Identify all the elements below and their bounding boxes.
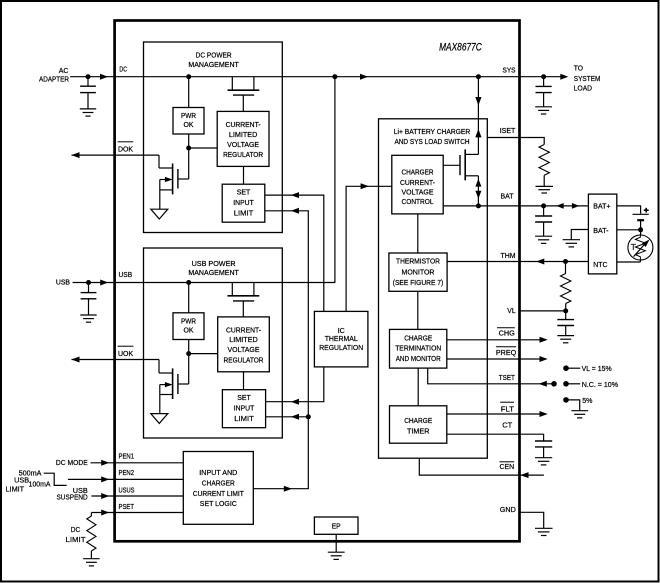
pin label CT bbox=[502, 421, 512, 430]
wire PWR OK out (DC) bbox=[188, 134, 190, 179]
svg-text:CURRENT-: CURRENT- bbox=[226, 325, 261, 334]
svg-text:DOK: DOK bbox=[118, 145, 133, 154]
TSET arrow bbox=[539, 381, 547, 387]
svg-text:MONITOR: MONITOR bbox=[402, 267, 436, 276]
svg-text:INPUT: INPUT bbox=[233, 198, 254, 207]
svg-text:SYSTEM: SYSTEM bbox=[574, 74, 601, 83]
svg-text:THM: THM bbox=[501, 251, 516, 260]
svg-text:TSET: TSET bbox=[499, 373, 515, 382]
svg-text:USB: USB bbox=[56, 278, 70, 287]
wire THM external bbox=[519, 261, 588, 263]
svg-text:CURRENT-: CURRENT- bbox=[226, 120, 261, 129]
svg-text:TIMER: TIMER bbox=[407, 427, 430, 436]
svg-text:N.C. = 10%: N.C. = 10% bbox=[582, 380, 619, 389]
wire BAT bbox=[443, 205, 519, 207]
box CHARGER CURRENT-VOLTAGE CONTROL bbox=[392, 155, 443, 214]
wire CHG external bbox=[519, 339, 539, 341]
svg-text:INPUT AND: INPUT AND bbox=[199, 468, 238, 477]
label NTC bbox=[593, 260, 608, 269]
arrow into charger control bbox=[361, 183, 369, 189]
svg-text:MANAGEMENT: MANAGEMENT bbox=[188, 268, 239, 277]
label PWR OK (DC) bbox=[181, 111, 196, 129]
pin label PREQ bbox=[496, 347, 516, 357]
Li+ battery charger block title bbox=[394, 127, 471, 146]
DC input arrow bbox=[100, 74, 108, 80]
wire FLT (internal) bbox=[447, 413, 520, 415]
wire ISET external bbox=[487, 138, 544, 145]
svg-text:REGULATOR: REGULATOR bbox=[223, 150, 264, 159]
transistor Q4 (UOK NFET) bbox=[159, 360, 178, 414]
switch bracket 500mA/100mA bbox=[44, 473, 67, 485]
Q2 body arrow bbox=[165, 177, 173, 182]
svg-text:OK: OK bbox=[184, 120, 194, 129]
label BAT- bbox=[593, 226, 609, 235]
node PWR OK output junction (DC) bbox=[186, 146, 191, 151]
label 100mA bbox=[29, 479, 51, 488]
svg-text:BAT: BAT bbox=[501, 192, 514, 201]
svg-text:CT: CT bbox=[502, 421, 512, 430]
svg-text:BAT+: BAT+ bbox=[593, 201, 611, 210]
PEN2 arrow bbox=[101, 476, 109, 482]
svg-text:NTC: NTC bbox=[593, 260, 608, 269]
svg-text:T: T bbox=[631, 242, 636, 252]
svg-text:LIMIT: LIMIT bbox=[66, 535, 86, 544]
resistor R1 (ISET) bbox=[539, 145, 549, 187]
wire node to regulator (USB) bbox=[189, 353, 218, 355]
svg-text:DC: DC bbox=[71, 525, 81, 534]
label regulator (USB) bbox=[224, 325, 265, 364]
wire USUS bbox=[91, 495, 183, 497]
wire EP to ground bbox=[335, 534, 337, 552]
wire TSET (internal) bbox=[428, 368, 520, 384]
wire BAT external bbox=[519, 205, 589, 207]
capacitor C4 (BAT) bbox=[535, 206, 552, 236]
svg-text:CEN: CEN bbox=[500, 462, 515, 471]
svg-text:CURRENT-: CURRENT- bbox=[400, 178, 435, 187]
svg-text:LIMIT: LIMIT bbox=[234, 208, 254, 217]
svg-text:INPUT: INPUT bbox=[234, 404, 255, 413]
wire TSET external bbox=[519, 383, 554, 385]
svg-text:DC: DC bbox=[119, 64, 127, 73]
ground (C4) bbox=[535, 236, 552, 243]
pin label CEN bbox=[500, 462, 515, 471]
label AC ADAPTER bbox=[39, 66, 69, 83]
node set-limit-2 junction bbox=[306, 414, 311, 419]
svg-text:PEN2: PEN2 bbox=[119, 468, 135, 477]
capacitor C6 (CT) bbox=[535, 441, 552, 458]
DOK arrow bbox=[72, 152, 80, 158]
PEN1 arrow bbox=[101, 460, 109, 466]
wire charge termination to timer bbox=[417, 368, 419, 406]
svg-text:OK: OK bbox=[184, 326, 194, 335]
svg-text:EP: EP bbox=[332, 521, 341, 530]
ground (C6) bbox=[535, 458, 552, 465]
transistor Q5 (charger PFET) bbox=[443, 149, 478, 180]
svg-text:SET: SET bbox=[237, 393, 251, 402]
label charge timer bbox=[404, 416, 432, 436]
node SYS junction bbox=[332, 74, 337, 79]
transistor Q1 (DC input PFET) bbox=[228, 77, 260, 112]
label TO SYSTEM LOAD bbox=[574, 63, 601, 92]
wire Q2 gate bbox=[178, 178, 189, 180]
ground (Q4 source) bbox=[151, 414, 168, 424]
svg-text:CHARGE: CHARGE bbox=[404, 333, 432, 342]
arrow into SET INPUT LIMIT 1 (USB) bbox=[291, 399, 299, 405]
svg-text:TERMINATION: TERMINATION bbox=[395, 344, 441, 353]
pin label TSET bbox=[499, 373, 515, 382]
label EP bbox=[332, 521, 341, 530]
part label MAX8677C bbox=[439, 42, 482, 54]
IC boundary U1 MAX8677C bbox=[115, 21, 520, 542]
label T (thermistor) bbox=[631, 242, 636, 252]
label charge termination bbox=[395, 333, 441, 363]
wire CHG (internal) bbox=[447, 339, 520, 341]
ground (R1) bbox=[536, 186, 554, 193]
svg-text:FLT: FLT bbox=[501, 404, 515, 413]
node DC input junction bbox=[86, 74, 91, 79]
PREQ arrow bbox=[540, 356, 548, 362]
label USB SUSPEND bbox=[57, 486, 89, 502]
wire NTC row bbox=[617, 261, 641, 263]
wire PEN1 bbox=[91, 462, 184, 464]
wire FLT external bbox=[519, 413, 539, 415]
transistor Q2 (DOK NFET) bbox=[159, 155, 178, 209]
box IC THERMAL REGULATION bbox=[314, 311, 368, 367]
wire Q5 source to BAT bbox=[477, 176, 479, 206]
node USB-PM junction bbox=[186, 280, 191, 285]
wire CT external bbox=[519, 434, 543, 441]
label BAT+ bbox=[593, 201, 611, 210]
wire PSET bbox=[91, 512, 183, 514]
PSET arrow bbox=[101, 510, 109, 516]
svg-text:THERMAL: THERMAL bbox=[325, 334, 358, 343]
box CHARGE TERMINATION AND MONITOR bbox=[390, 329, 447, 368]
svg-text:PWR: PWR bbox=[181, 317, 196, 326]
wire set logic output bbox=[253, 417, 308, 489]
svg-text:VL = 15%: VL = 15% bbox=[582, 364, 612, 373]
ground (Q2 source) bbox=[151, 209, 168, 219]
wire Q4 gate bbox=[178, 383, 189, 385]
wire USB rail bbox=[73, 282, 336, 284]
svg-text:VL: VL bbox=[507, 306, 515, 315]
pin label PSET bbox=[119, 502, 135, 511]
pin label USB bbox=[119, 270, 133, 279]
svg-text:USB POWER: USB POWER bbox=[192, 259, 237, 268]
pin label DOK bbox=[118, 142, 134, 154]
pin label USUS bbox=[119, 485, 135, 494]
charge path arrow up bbox=[475, 179, 481, 187]
wire CT (internal) bbox=[447, 433, 520, 435]
svg-text:BAT-: BAT- bbox=[593, 226, 609, 235]
DC POWER MANAGEMENT block bbox=[144, 42, 283, 233]
svg-text:Li+ BATTERY CHARGER: Li+ BATTERY CHARGER bbox=[394, 127, 471, 136]
svg-text:PEN1: PEN1 bbox=[119, 452, 135, 461]
svg-text:SET: SET bbox=[237, 188, 251, 197]
BAT arrow left bbox=[556, 203, 564, 209]
label PWR OK (USB) bbox=[181, 317, 196, 335]
label set logic bbox=[193, 468, 244, 508]
ground (C2) bbox=[80, 315, 96, 322]
transistor Q3 (USB input PFET) bbox=[228, 283, 260, 317]
pin label THM bbox=[501, 251, 516, 260]
svg-text:LOAD: LOAD bbox=[574, 84, 593, 93]
thermistor RT1 bbox=[628, 230, 653, 262]
option dot 5% bbox=[563, 397, 580, 410]
SYS rail arrow bbox=[360, 74, 368, 80]
label USB LIMIT bbox=[6, 476, 30, 494]
wire DC rail to PWR OK bbox=[188, 77, 190, 108]
svg-text:(SEE FIGURE 7): (SEE FIGURE 7) bbox=[393, 278, 444, 287]
svg-text:LIMIT: LIMIT bbox=[6, 484, 25, 493]
resistor R4 DC LIMIT bbox=[87, 513, 96, 559]
pin label DC bbox=[119, 64, 127, 73]
THM arrow bbox=[536, 259, 544, 265]
svg-text:MAX8677C: MAX8677C bbox=[439, 42, 482, 54]
load switch arrow down bbox=[475, 97, 481, 106]
wire SYS to load switch bbox=[477, 77, 479, 155]
ground (C3) bbox=[535, 107, 552, 114]
svg-text:UOK: UOK bbox=[118, 349, 133, 358]
USB input arrow bbox=[100, 280, 108, 286]
label battery + bbox=[644, 208, 649, 213]
wire CEN external bbox=[519, 474, 544, 476]
label thermistor monitor bbox=[393, 257, 444, 287]
node BAT external junction bbox=[541, 203, 546, 208]
node THM junction bbox=[563, 259, 568, 264]
resistor R2 (THM-VL) bbox=[561, 262, 571, 311]
svg-text:5%: 5% bbox=[582, 396, 593, 405]
wire BAT- row bbox=[617, 229, 641, 231]
wire PWR OK out (USB) bbox=[188, 340, 190, 385]
Li+ battery charger block bbox=[379, 119, 488, 458]
wire CEN (internal) bbox=[419, 458, 519, 475]
svg-text:PSET: PSET bbox=[119, 502, 135, 511]
wire BAT- to ground bbox=[571, 230, 588, 240]
svg-text:REGULATION: REGULATION bbox=[319, 343, 363, 352]
battery B1 bbox=[633, 214, 649, 230]
USB POWER MANAGEMENT title bbox=[188, 259, 239, 277]
node TSET end dot bbox=[551, 381, 557, 387]
label DC MODE bbox=[56, 458, 88, 467]
pin label SYS bbox=[503, 66, 516, 75]
label 5% bbox=[582, 396, 593, 405]
svg-text:DC POWER: DC POWER bbox=[196, 51, 232, 60]
label charger control bbox=[400, 168, 435, 207]
wire set-input-limit-2 (DC, from set logic) bbox=[265, 211, 309, 417]
label DC LIMIT bbox=[66, 525, 86, 544]
wire VL external bbox=[519, 310, 565, 312]
svg-text:VOLTAGE: VOLTAGE bbox=[402, 188, 434, 197]
svg-text:SYS: SYS bbox=[503, 66, 516, 75]
svg-text:CHARGER: CHARGER bbox=[202, 479, 236, 488]
box THERMISTOR MONITOR bbox=[389, 253, 447, 291]
wire USB rail to PWR OK bbox=[188, 283, 190, 313]
DC POWER MANAGEMENT title bbox=[188, 51, 239, 69]
node battery minus junction bbox=[638, 227, 643, 232]
svg-text:TO: TO bbox=[574, 63, 583, 72]
arrow into SET INPUT LIMIT 1 (DC) bbox=[291, 192, 299, 198]
pin label PEN1 bbox=[119, 452, 135, 461]
wire BAT+ to battery bbox=[617, 206, 641, 214]
svg-text:USB: USB bbox=[119, 270, 133, 279]
wire set-input-limit-2 (USB, from set logic) bbox=[266, 416, 309, 418]
USUS arrow bbox=[101, 493, 109, 499]
label IC THERMAL REGULATION bbox=[319, 326, 363, 352]
BAT arrow right bbox=[572, 203, 580, 209]
svg-text:USUS: USUS bbox=[119, 485, 135, 494]
set logic output arrow bbox=[284, 486, 292, 492]
svg-text:CHARGER: CHARGER bbox=[402, 168, 434, 177]
capacitor C2 (USB input) bbox=[81, 283, 97, 315]
wire regulator to set-input-limit (USB) bbox=[243, 372, 245, 390]
wire SYS-to-USB-rail vertical bbox=[334, 77, 336, 283]
wire PEN2 bbox=[68, 478, 183, 480]
label SET INPUT LIMIT (DC) bbox=[233, 188, 254, 218]
wire UOK bbox=[72, 359, 160, 361]
svg-text:THERMISTOR: THERMISTOR bbox=[396, 257, 441, 266]
wire GND external bbox=[519, 512, 543, 528]
CHG arrow bbox=[540, 337, 548, 343]
wire charger control to thermistor monitor bbox=[417, 214, 419, 253]
svg-text:LIMITED: LIMITED bbox=[229, 335, 258, 344]
wire thermal-to-charger-control bbox=[346, 186, 392, 311]
svg-text:SUSPEND: SUSPEND bbox=[57, 493, 89, 502]
box CHARGE TIMER bbox=[390, 406, 447, 443]
wire DC/SYS rail bbox=[70, 76, 519, 78]
label regulator (DC) bbox=[223, 120, 264, 159]
arrow into SET INPUT LIMIT 2 (DC) bbox=[291, 208, 299, 214]
node load-switch top junction bbox=[476, 74, 481, 79]
box PWR OK (USB) bbox=[173, 313, 204, 340]
option dot VL=15% bbox=[563, 365, 580, 371]
box SET INPUT LIMIT (USB) bbox=[222, 390, 265, 428]
UOK arrow bbox=[72, 357, 80, 363]
ground (EP) bbox=[328, 552, 345, 559]
pin label UOK bbox=[118, 346, 134, 358]
Q4 body arrow bbox=[165, 382, 173, 387]
node DC-PM junction bbox=[186, 74, 191, 79]
ground (5% option) bbox=[571, 411, 588, 418]
svg-text:ISET: ISET bbox=[500, 126, 516, 135]
svg-text:LIMIT: LIMIT bbox=[234, 414, 254, 423]
wire set-input-limit-1 (USB, from thermal reg) bbox=[266, 367, 324, 402]
wire THM bbox=[447, 261, 519, 263]
capacitor C3 (SYS) bbox=[536, 77, 552, 107]
box battery connector bbox=[588, 194, 616, 274]
pin label BAT bbox=[501, 192, 514, 201]
FLT arrow bbox=[540, 411, 548, 417]
label USB (external) bbox=[56, 278, 70, 287]
svg-text:CHARGE: CHARGE bbox=[404, 416, 432, 425]
svg-text:CHG: CHG bbox=[499, 329, 515, 338]
ground (C1) bbox=[80, 109, 96, 116]
box EP bbox=[314, 517, 358, 534]
svg-text:USB: USB bbox=[14, 476, 29, 485]
box CURRENT-LIMITED VOLTAGE REGULATOR (USB) bbox=[218, 317, 270, 372]
svg-text:LIMITED: LIMITED bbox=[229, 130, 258, 139]
wire DOK bbox=[72, 154, 160, 156]
charge path arrow down bbox=[475, 191, 481, 199]
wire PREQ external bbox=[519, 358, 539, 360]
svg-text:AND MONITOR: AND MONITOR bbox=[396, 354, 441, 363]
arrow into SET INPUT LIMIT 2 (USB) bbox=[291, 414, 299, 420]
svg-text:REGULATOR: REGULATOR bbox=[224, 355, 265, 364]
load switch arrow up bbox=[475, 129, 481, 138]
svg-text:100mA: 100mA bbox=[29, 479, 51, 488]
box PWR OK (DC) bbox=[173, 108, 204, 135]
svg-text:DC MODE: DC MODE bbox=[56, 458, 88, 467]
wire thermistor monitor to charge termination bbox=[417, 291, 419, 329]
TO SYSTEM LOAD arrow bbox=[560, 74, 568, 80]
ground (R4) bbox=[83, 559, 99, 566]
node BAT junction bbox=[476, 203, 481, 208]
pin label FLT bbox=[500, 402, 514, 413]
svg-text:ADAPTER: ADAPTER bbox=[39, 74, 69, 83]
svg-text:VOLTAGE: VOLTAGE bbox=[227, 140, 259, 149]
ground (GND pin) bbox=[535, 528, 553, 535]
svg-text:CURRENT LIMIT: CURRENT LIMIT bbox=[193, 489, 244, 498]
capacitor C1 (DC input) bbox=[80, 77, 96, 109]
svg-text:MANAGEMENT: MANAGEMENT bbox=[188, 60, 239, 69]
wire node to regulator (DC) bbox=[189, 147, 218, 149]
svg-text:GND: GND bbox=[500, 505, 517, 514]
pin label GND bbox=[500, 505, 517, 514]
svg-text:PWR: PWR bbox=[181, 111, 196, 120]
pin label CHG bbox=[497, 328, 515, 338]
pin label ISET bbox=[500, 126, 516, 135]
wire PREQ (internal) bbox=[447, 358, 520, 360]
capacitor C5 (VL) bbox=[557, 311, 574, 336]
box CURRENT-LIMITED VOLTAGE REGULATOR (DC) bbox=[217, 111, 269, 166]
label VL = 15% bbox=[582, 364, 612, 373]
label N.C. = 10% bbox=[582, 380, 619, 389]
wire SYS external bbox=[519, 76, 561, 78]
ground (C5) bbox=[557, 336, 574, 343]
box INPUT AND CHARGER CURRENT LIMIT SET LOGIC bbox=[183, 452, 253, 525]
svg-text:PREQ: PREQ bbox=[496, 348, 516, 357]
svg-text:VOLTAGE: VOLTAGE bbox=[228, 345, 260, 354]
box SET INPUT LIMIT (DC) bbox=[222, 184, 265, 222]
label 500mA bbox=[19, 468, 42, 477]
pin label VL bbox=[507, 306, 515, 315]
pin label PEN2 bbox=[119, 468, 135, 477]
option dot N.C.=10% bbox=[563, 381, 580, 387]
wire regulator to set-input-limit (DC) bbox=[243, 166, 245, 184]
label SET INPUT LIMIT (USB) bbox=[234, 393, 255, 423]
svg-text:AND SYS LOAD SWITCH: AND SYS LOAD SWITCH bbox=[394, 137, 469, 146]
node PWR OK output junction (USB) bbox=[186, 351, 191, 356]
wire set-input-limit-1 (DC, from thermal reg) bbox=[265, 195, 324, 311]
CEN arrow bbox=[520, 472, 528, 478]
node USB input junction bbox=[86, 280, 91, 285]
svg-text:SET LOGIC: SET LOGIC bbox=[200, 499, 238, 508]
node VL junction bbox=[563, 308, 568, 313]
USB POWER MANAGEMENT block bbox=[144, 248, 283, 438]
ground (BAT-) bbox=[563, 240, 580, 247]
svg-text:CONTROL: CONTROL bbox=[402, 197, 434, 206]
node SYS external junction bbox=[541, 74, 546, 79]
